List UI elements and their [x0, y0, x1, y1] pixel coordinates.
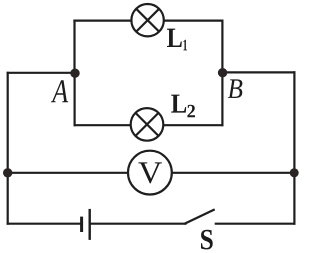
wire right vertical bus [293, 72, 295, 223]
node: right bus / voltmeter row junction dot [290, 168, 299, 177]
label A [51, 80, 68, 102]
wire voltmeter row [8, 172, 295, 174]
wire top rail (L1 branch) [75, 20, 223, 22]
wire left vertical bus [7, 73, 9, 224]
node B junction dot [218, 68, 227, 77]
wire L2 branch horizontal [75, 124, 223, 126]
wire node B vertical (top rail to L2 branch) [221, 21, 223, 126]
lamp L1 (circle with cross) [131, 4, 163, 36]
switch S blade (open) [185, 210, 213, 224]
label B [228, 79, 243, 98]
wire node B to right bus [222, 71, 294, 73]
wire switch to right bus [216, 223, 295, 225]
label L2 letter [171, 95, 186, 113]
battery cell: long positive plate [88, 209, 90, 240]
wire battery to switch [90, 223, 186, 225]
wire node A down to L2 branch [73, 73, 75, 125]
node: left bus / voltmeter row junction dot [3, 168, 12, 177]
wire bottom rail left (to battery) [8, 223, 82, 225]
battery cell: short negative plate [80, 217, 83, 232]
voltmeter letter V [138, 162, 162, 183]
label L1 subscript 1 [183, 40, 187, 51]
wire left drop from top rail to node A [73, 21, 75, 73]
label L1 letter [167, 29, 182, 47]
label S (switch) [201, 230, 213, 250]
label L2 subscript 2 [187, 105, 195, 118]
wire node A to left bus [8, 72, 75, 74]
voltmeter U1 (circle) [128, 151, 172, 195]
node A junction dot [70, 69, 79, 78]
lamp L2 (circle with cross) [131, 108, 164, 141]
